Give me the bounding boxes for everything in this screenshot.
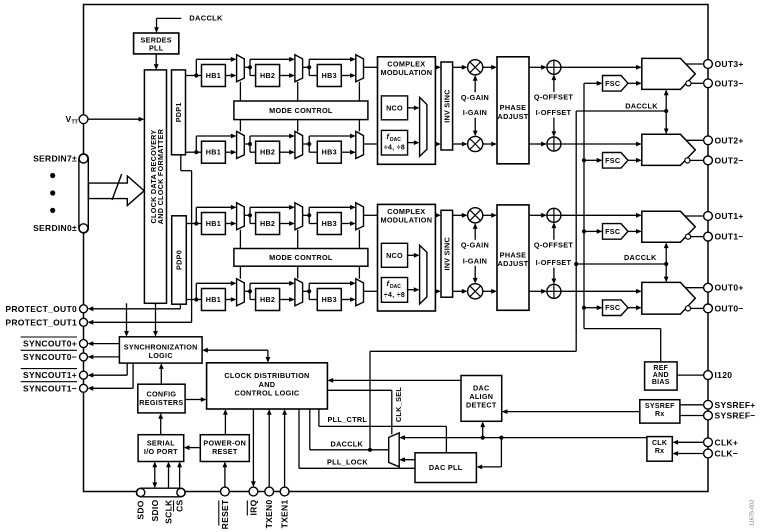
wire mux select upper groupB x240.4 bbox=[239, 230, 241, 249]
wire CM to INV SINC q groupA bbox=[434, 66, 436, 68]
svg-text:I-GAIN: I-GAIN bbox=[463, 256, 488, 265]
wire HB2-mux row4 bbox=[280, 299, 290, 301]
FSC block DAC1 bbox=[603, 224, 629, 240]
wire sysref to dac align bbox=[507, 411, 640, 413]
wire SYNCOUT0+ bbox=[93, 343, 119, 345]
wire Q-GAIN arrow groupB bbox=[474, 227, 476, 239]
pin VTT bbox=[79, 115, 88, 124]
wire HB1-mux row4 bbox=[225, 299, 231, 301]
PDP1 box bbox=[172, 70, 186, 155]
wire mux2 out row4 bbox=[303, 290, 310, 292]
wire mux2 out row2 bbox=[303, 143, 310, 145]
svg-text:HB2: HB2 bbox=[260, 148, 275, 157]
wire CLK+ line bbox=[678, 441, 704, 443]
halfband HB2 row3 bbox=[256, 213, 280, 235]
wire RESET bbox=[224, 467, 226, 487]
svg-text:RESET: RESET bbox=[220, 499, 230, 529]
CONFIG REGISTERS box bbox=[138, 384, 185, 413]
halfband HB2 row1 bbox=[256, 65, 280, 87]
svg-text:NCO: NCO bbox=[386, 251, 403, 260]
INV SINC box groupA bbox=[441, 62, 453, 150]
wire PDP out row1 bbox=[186, 75, 202, 77]
svg-text:MODULATION: MODULATION bbox=[380, 216, 432, 225]
wire VTT to CDR bbox=[88, 118, 139, 120]
pin OUT0- bbox=[704, 304, 713, 313]
wire FSC feed DAC2 bbox=[584, 159, 597, 161]
wire SYSREF- line bbox=[680, 415, 704, 417]
wire mux3 to complex modulation row1 bbox=[364, 66, 378, 68]
DAC core 3 bbox=[642, 58, 696, 89]
svg-text:REGISTERS: REGISTERS bbox=[139, 398, 183, 407]
pin SYSREF- bbox=[704, 411, 713, 420]
svg-text:FSC: FSC bbox=[605, 79, 620, 88]
mux1 row1 bbox=[237, 55, 245, 82]
wire FSC to DAC1 bbox=[628, 230, 636, 232]
wire phase adjust to adder q groupB bbox=[529, 214, 541, 216]
wire DAC0 to OUT0+ bbox=[685, 287, 703, 289]
wire DAC0 to OUT0- bbox=[691, 307, 704, 309]
svg-text:11675-002: 11675-002 bbox=[750, 500, 756, 526]
SERDES PLL box bbox=[134, 33, 179, 54]
wire mux3 to complex modulation row4 bbox=[364, 290, 378, 292]
svg-text:PLL_CTRL: PLL_CTRL bbox=[328, 415, 368, 424]
svg-text:OUT0+: OUT0+ bbox=[715, 283, 744, 293]
wire mux select lower groupB x240.4 bbox=[239, 266, 241, 279]
wire Q-GAIN arrow groupA bbox=[474, 79, 476, 92]
svg-text:PDP0: PDP0 bbox=[175, 250, 184, 270]
inversion bubble DAC2 bbox=[685, 158, 690, 163]
halfband HB1 row2 bbox=[202, 141, 226, 163]
pin I120 bbox=[704, 371, 713, 380]
ellipsis dots bbox=[50, 173, 55, 178]
mux3 row4 bbox=[356, 279, 364, 306]
wire mux select lower groupB x297.7 bbox=[297, 266, 299, 279]
wire DAC3 to OUT3- bbox=[691, 82, 704, 84]
CDR box (clock data recovery and clock formatter) bbox=[144, 70, 166, 303]
junction FSC bus DAC1 bbox=[582, 229, 586, 233]
wire mux3 to complex modulation row2 bbox=[364, 143, 378, 145]
svg-text:ADJUST: ADJUST bbox=[498, 259, 529, 268]
halfband HB2 row4 bbox=[256, 289, 280, 311]
svg-text:MODE CONTROL: MODE CONTROL bbox=[269, 253, 333, 262]
wire NCO to mux groupA bbox=[408, 107, 414, 109]
wire DACCLK to SERDES PLL bbox=[157, 17, 182, 19]
wire CLK line bbox=[405, 437, 647, 439]
halfband HB3 row4 bbox=[317, 289, 341, 311]
inversion bubble DAC1 bbox=[685, 234, 690, 239]
pin SYSREF+ bbox=[704, 400, 713, 409]
svg-text:INV SINC: INV SINC bbox=[442, 237, 451, 271]
wire FSC to DAC3 bbox=[628, 82, 636, 84]
pin OUT3+ bbox=[704, 60, 713, 69]
wire config to clockdist bbox=[185, 399, 201, 401]
adder i groupA bbox=[547, 137, 561, 151]
fDAC box groupA bbox=[381, 130, 407, 155]
wire SYSREF+ line bbox=[680, 404, 704, 406]
wire SCLK bbox=[168, 467, 170, 488]
REF AND BIAS box bbox=[645, 362, 678, 390]
wire SYNCOUT1+ bbox=[126, 363, 128, 375]
svg-text:PLL: PLL bbox=[149, 43, 164, 52]
DAC core 1 bbox=[642, 211, 696, 242]
svg-text:INV SINC: INV SINC bbox=[442, 89, 451, 123]
wire HB1-mux row2 bbox=[225, 151, 231, 153]
junction FSC bus DAC0 bbox=[582, 306, 586, 310]
svg-text:OUT0−: OUT0− bbox=[715, 303, 744, 313]
mux1 row3 bbox=[237, 203, 245, 230]
wire INV SINC to mult q groupA bbox=[453, 66, 462, 68]
svg-text:HB1: HB1 bbox=[206, 295, 221, 304]
wire mux3 to complex modulation row3 bbox=[364, 214, 378, 216]
wire CLK_SEL bbox=[327, 389, 391, 391]
svg-text:HB3: HB3 bbox=[322, 71, 337, 80]
wire DAC3 to OUT3+ bbox=[686, 63, 704, 65]
wire PLL_CTRL bbox=[318, 409, 320, 426]
wire mux2 out row1 bbox=[303, 66, 310, 68]
svg-text:DACCLK: DACCLK bbox=[625, 101, 658, 110]
junction DACCLK bus groupB bbox=[574, 262, 578, 266]
halfband HB1 row4 bbox=[202, 289, 226, 311]
mux3 row1 bbox=[356, 55, 364, 82]
svg-text:I/O PORT: I/O PORT bbox=[144, 447, 178, 456]
SYSREF Rx box bbox=[640, 400, 680, 423]
wire phase adjust to adder i groupB bbox=[529, 290, 541, 292]
svg-text:SYNCOUT0−: SYNCOUT0− bbox=[23, 352, 77, 362]
svg-text:PROTECT_OUT1: PROTECT_OUT1 bbox=[5, 317, 77, 327]
svg-text:FSC: FSC bbox=[605, 227, 620, 236]
wire FSC feed DAC0 bbox=[584, 307, 597, 309]
mux1 row2 bbox=[237, 131, 245, 158]
pin SERDIN7 bbox=[79, 154, 88, 163]
svg-text:TXEN0: TXEN0 bbox=[264, 500, 274, 529]
svg-text:CLK_SEL: CLK_SEL bbox=[394, 387, 403, 423]
wire sync-clockdist elbow bbox=[202, 348, 208, 353]
wire clk branch to dac align bbox=[482, 427, 484, 438]
wire DAC2 to OUT2+ bbox=[686, 139, 703, 141]
wire HB3-mux row4 bbox=[341, 299, 350, 301]
svg-text:Rx: Rx bbox=[655, 448, 665, 455]
FSC block DAC0 bbox=[603, 300, 629, 316]
pin SYNCOUT1+ bbox=[80, 371, 88, 379]
wire PDP out row3 bbox=[186, 223, 202, 225]
DACCLK bus vertical bbox=[575, 111, 577, 351]
multiplier i groupB bbox=[468, 284, 483, 299]
wire I-GAIN arrow groupA bbox=[474, 118, 476, 132]
wire INV SINC to mult i groupB bbox=[453, 290, 462, 292]
svg-text:÷4, ÷8: ÷4, ÷8 bbox=[384, 292, 405, 299]
wire phase adjust to adder i groupA bbox=[529, 143, 541, 145]
svg-text:PDP1: PDP1 bbox=[174, 102, 183, 122]
svg-text:SYSREF−: SYSREF− bbox=[715, 411, 756, 421]
svg-text:HB3: HB3 bbox=[322, 148, 337, 157]
wire PDP1 to PDP0 jog bbox=[180, 155, 182, 171]
wire adder to DAC1 bbox=[561, 214, 636, 216]
wire PROTECT_OUT0 bbox=[179, 304, 181, 309]
wire HB2-mux row1 bbox=[280, 75, 290, 77]
svg-text:OUT2−: OUT2− bbox=[715, 155, 744, 165]
svg-text:Q-OFFSET: Q-OFFSET bbox=[534, 240, 574, 249]
mux3 row3 bbox=[356, 203, 364, 230]
wire INV SINC to mult q groupB bbox=[453, 214, 462, 216]
svg-text:IRQ: IRQ bbox=[248, 499, 258, 515]
pin OUT3- bbox=[704, 79, 713, 88]
PHASE ADJUST box groupA bbox=[497, 57, 529, 164]
svg-text:SYNCOUT1+: SYNCOUT1+ bbox=[23, 370, 77, 380]
wire mux select upper groupA x297.7 bbox=[297, 82, 299, 101]
svg-text:OUT2+: OUT2+ bbox=[715, 135, 744, 145]
wire DACCLK horiz groupB bbox=[576, 263, 666, 265]
wire DACCLK horiz groupA bbox=[576, 110, 666, 112]
svg-text:CLK: CLK bbox=[652, 440, 667, 447]
svg-text:CLOCK DISTRIBUTION: CLOCK DISTRIBUTION bbox=[224, 371, 309, 380]
wire HB3-mux row1 bbox=[341, 75, 350, 77]
svg-text:PHASE: PHASE bbox=[500, 250, 527, 259]
wire FSC feed DAC3 bbox=[584, 82, 597, 84]
svg-text:÷4, ÷8: ÷4, ÷8 bbox=[384, 145, 405, 152]
svg-text:PHASE: PHASE bbox=[500, 103, 527, 112]
svg-text:HB1: HB1 bbox=[206, 148, 221, 157]
pin OUT2+ bbox=[704, 136, 713, 145]
wire INV SINC to mult i groupA bbox=[453, 143, 462, 145]
wire adder to DAC3 bbox=[561, 66, 636, 68]
svg-text:HB2: HB2 bbox=[260, 71, 275, 80]
svg-text:RESET: RESET bbox=[212, 447, 238, 456]
svg-text:SERDIN0±: SERDIN0± bbox=[33, 223, 77, 233]
wire HB2-mux row3 bbox=[280, 223, 290, 225]
wire TXEN0 bbox=[268, 415, 270, 488]
svg-text:SYSREF: SYSREF bbox=[645, 403, 675, 410]
inversion bubble DAC0 bbox=[685, 306, 690, 311]
svg-text:HB1: HB1 bbox=[206, 71, 221, 80]
FSC block DAC2 bbox=[603, 153, 629, 169]
wire PDP out row2 bbox=[186, 151, 202, 153]
wire SDIO bbox=[154, 467, 156, 483]
svg-text:SYSREF+: SYSREF+ bbox=[715, 400, 756, 410]
svg-text:DAC PLL: DAC PLL bbox=[429, 463, 463, 472]
bus block arrow bbox=[89, 176, 145, 206]
wire mux2 out row3 bbox=[303, 214, 310, 216]
svg-text:SDO: SDO bbox=[136, 500, 146, 519]
svg-text:REF: REF bbox=[653, 365, 668, 372]
POWER-ON RESET box bbox=[200, 435, 249, 462]
wire I-OFFSET arrow groupA bbox=[553, 118, 555, 133]
FSC bus vertical bbox=[583, 83, 585, 328]
wire SYNCOUT0- bbox=[93, 356, 119, 358]
svg-text:FSC: FSC bbox=[605, 156, 620, 165]
wire mult to phase adjust q groupA bbox=[483, 66, 492, 68]
wire mux select upper groupB x359.4 bbox=[358, 230, 360, 249]
svg-text:MODULATION: MODULATION bbox=[380, 68, 432, 77]
svg-text:OUT1+: OUT1+ bbox=[715, 211, 744, 221]
adder q groupB bbox=[547, 208, 561, 222]
wire ref bias to I120 bbox=[677, 374, 704, 376]
SPI bus capsule bbox=[136, 488, 185, 497]
svg-text:DACCLK: DACCLK bbox=[624, 253, 657, 262]
svg-text:SYNCOUT1−: SYNCOUT1− bbox=[23, 383, 77, 393]
wire FSC feed DAC1 bbox=[584, 230, 597, 232]
wire HB3-mux row3 bbox=[341, 223, 350, 225]
wire CDR to sync logic b bbox=[155, 303, 157, 331]
wire I-OFFSET arrow groupB bbox=[553, 268, 555, 280]
chip outer border bbox=[84, 5, 709, 492]
svg-text:CLK+: CLK+ bbox=[715, 437, 739, 447]
PHASE ADJUST box groupB bbox=[497, 205, 529, 310]
wire CM to INV SINC i groupB bbox=[434, 290, 436, 292]
wire POR to clock dist bbox=[224, 415, 226, 435]
NCO box groupB bbox=[381, 243, 407, 267]
halfband HB1 row3 bbox=[202, 213, 226, 235]
wire fDAC to mux groupB bbox=[408, 289, 414, 291]
halfband HB3 row1 bbox=[317, 65, 341, 87]
wire NCO to mux groupB bbox=[408, 254, 414, 256]
wire serial to config bbox=[160, 419, 162, 435]
pin TXEN0 bbox=[265, 487, 274, 496]
pin SERDIN0 bbox=[79, 224, 88, 233]
wire Q-OFFSET arrow groupB bbox=[553, 227, 555, 240]
pin RESET bbox=[221, 487, 230, 496]
svg-text:DACCLK: DACCLK bbox=[189, 13, 223, 22]
mux3 row2 bbox=[356, 131, 364, 158]
svg-text:DETECT: DETECT bbox=[466, 401, 497, 410]
svg-text:DACCLK: DACCLK bbox=[331, 440, 364, 449]
wire dacpll to clock mux bbox=[405, 459, 415, 461]
wire PROTECT_OUT1 bbox=[191, 171, 193, 323]
SYNCHRONIZATION LOGIC box bbox=[119, 337, 202, 363]
NCO box groupA bbox=[381, 96, 407, 120]
NCO mux groupB bbox=[420, 245, 427, 304]
wire mult to phase adjust i groupB bbox=[483, 290, 492, 292]
svg-text:MODE CONTROL: MODE CONTROL bbox=[269, 106, 333, 115]
mux2 row3 bbox=[295, 203, 303, 230]
wire CS bbox=[179, 467, 181, 488]
wire bypass1 row4 bbox=[195, 283, 197, 299]
svg-text:OUT3+: OUT3+ bbox=[715, 59, 744, 69]
wire FSC to DAC0 bbox=[628, 307, 636, 309]
svg-text:I-OFFSET: I-OFFSET bbox=[536, 258, 572, 267]
wire adder to DAC2 bbox=[561, 143, 636, 145]
halfband HB3 row2 bbox=[317, 141, 341, 163]
svg-text:I-OFFSET: I-OFFSET bbox=[536, 108, 572, 117]
multiplier q groupB bbox=[468, 208, 483, 223]
wire mult to phase adjust q groupB bbox=[483, 214, 492, 216]
wire config to sync bbox=[160, 369, 162, 385]
wire HB2-mux row2 bbox=[280, 151, 290, 153]
adder q groupA bbox=[547, 60, 561, 74]
svg-text:PLL_LOCK: PLL_LOCK bbox=[327, 458, 368, 467]
mux2 row4 bbox=[295, 279, 303, 306]
svg-text:TT: TT bbox=[72, 120, 79, 126]
wire mux select upper groupA x240.4 bbox=[239, 82, 241, 101]
wire mux select upper groupA x359.4 bbox=[358, 82, 360, 101]
svg-text:NCO: NCO bbox=[386, 103, 403, 112]
wire CDR to sync logic a bbox=[126, 303, 128, 331]
NCO mux groupA bbox=[420, 97, 427, 156]
wire dacalign to clockdist bbox=[333, 379, 461, 381]
DAC core 2 bbox=[642, 134, 696, 165]
pin CLK+ bbox=[704, 438, 713, 447]
mux2 row2 bbox=[295, 131, 303, 158]
mux2 row1 bbox=[295, 55, 303, 82]
wire clk branch to dac pll bbox=[500, 438, 502, 467]
wire mux select lower groupB x359.4 bbox=[358, 266, 360, 279]
pin TXEN1 bbox=[280, 487, 289, 496]
svg-text:I-GAIN: I-GAIN bbox=[463, 108, 488, 117]
DAC ALIGN DETECT box bbox=[461, 376, 502, 422]
wire DACCLK arrows groupA bbox=[665, 94, 667, 111]
svg-text:BIAS: BIAS bbox=[652, 379, 670, 386]
svg-text:DAC: DAC bbox=[390, 137, 401, 143]
pin OUT1- bbox=[704, 232, 713, 241]
pin SYNCOUT0+ bbox=[80, 340, 88, 348]
pin OUT2- bbox=[704, 156, 713, 165]
inversion bubble DAC3 bbox=[686, 81, 691, 86]
svg-text:FSC: FSC bbox=[605, 303, 620, 312]
wire HB1-mux row3 bbox=[225, 223, 231, 225]
wire mux select lower groupA x240.4 bbox=[239, 120, 241, 132]
adder i groupB bbox=[547, 284, 561, 298]
wire fDAC to mux groupA bbox=[408, 142, 414, 144]
svg-text:SDIO: SDIO bbox=[150, 499, 160, 521]
halfband HB1 row1 bbox=[202, 65, 226, 87]
svg-text:HB2: HB2 bbox=[260, 295, 275, 304]
pin PROTECT_OUT1 bbox=[80, 318, 88, 326]
svg-text:I120: I120 bbox=[715, 370, 733, 380]
wire CM to INV SINC q groupB bbox=[434, 214, 436, 216]
wire mult to phase adjust i groupA bbox=[483, 143, 492, 145]
wire mux select upper groupB x297.7 bbox=[297, 230, 299, 249]
CLOCK DISTRIBUTION box bbox=[207, 363, 328, 409]
pin SYNCOUT0- bbox=[80, 353, 88, 361]
pin OUT0+ bbox=[704, 283, 713, 292]
wire HB3-mux row2 bbox=[341, 151, 350, 153]
clock mux bbox=[389, 433, 400, 467]
pin PROTECT_OUT0 bbox=[80, 305, 88, 313]
svg-text:HB1: HB1 bbox=[206, 219, 221, 228]
svg-text:DAC: DAC bbox=[390, 284, 401, 290]
svg-text:Rx: Rx bbox=[655, 411, 665, 418]
multiplier i groupA bbox=[468, 136, 483, 151]
FSC block DAC3 bbox=[603, 76, 629, 92]
PDP0 box bbox=[172, 216, 187, 304]
wire SERDES PLL to CDR bbox=[155, 54, 157, 64]
wire PDP out row4 bbox=[186, 299, 202, 301]
MODE CONTROL box groupA bbox=[234, 101, 368, 120]
svg-text:PROTECT_OUT0: PROTECT_OUT0 bbox=[5, 304, 77, 314]
svg-text:HB3: HB3 bbox=[322, 219, 337, 228]
svg-text:HB2: HB2 bbox=[260, 219, 275, 228]
wire DACCLK from mux to clockdist bbox=[309, 409, 311, 450]
svg-text:CLK−: CLK− bbox=[715, 449, 739, 459]
junction FSC bus DAC2 bbox=[582, 158, 586, 162]
INV SINC box groupB bbox=[441, 210, 453, 297]
wire FSC to DAC2 bbox=[628, 159, 636, 161]
pin IRQ bbox=[249, 487, 258, 496]
wire mux select lower groupA x297.7 bbox=[297, 120, 299, 132]
wire mux1 out row1 bbox=[244, 66, 250, 68]
pin CLK- bbox=[704, 449, 713, 458]
SERIAL I/O PORT box bbox=[138, 435, 184, 462]
svg-text:Q-GAIN: Q-GAIN bbox=[461, 240, 489, 249]
wire POR to serial bbox=[189, 447, 200, 449]
pin SDIO bbox=[177, 488, 185, 496]
svg-text:CS: CS bbox=[175, 499, 185, 511]
MODE CONTROL box groupB bbox=[234, 249, 368, 267]
halfband HB2 row2 bbox=[256, 141, 280, 163]
wire mux1 out row2 bbox=[244, 143, 250, 145]
wire mux select lower groupA x359.4 bbox=[358, 120, 360, 132]
wire bypass1 row3 bbox=[195, 207, 197, 223]
wire mux1 out row3 bbox=[244, 214, 250, 216]
